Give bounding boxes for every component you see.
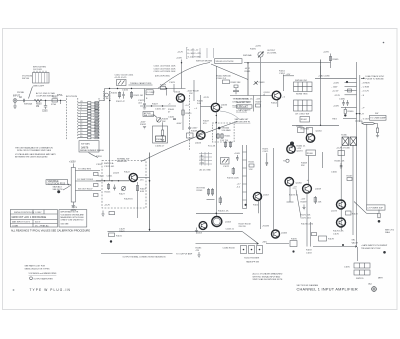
Q1064 internals: [309, 135, 313, 141]
switch contact row 20. V/cm: [78, 133, 99, 137]
Q1157 internals: [256, 194, 260, 200]
svg-text:+R1193: +R1193: [262, 226, 270, 228]
svg-text:C1029: C1029: [169, 82, 176, 84]
wire +100 drop: [181, 60, 183, 89]
wire long vertical x149.5: [149, 153, 151, 232]
wire gain column top tick: [72, 164, 74, 168]
svg-text:SERIAL NUMBER RANGE: SERIAL NUMBER RANGE: [80, 149, 105, 152]
svg-text:-12.2V: -12.2V: [203, 97, 210, 99]
trimmer arrows: [118, 81, 125, 85]
comp bottom left: [109, 212, 115, 215]
resistor R1035: [162, 122, 164, 130]
svg-text:VOLTS/CM R510: VOLTS/CM R510: [48, 183, 66, 185]
svg-text:R1080: R1080: [348, 111, 355, 113]
Q1053 internals: [275, 93, 279, 99]
contact grid upper: [294, 82, 313, 92]
wire long vertical x109.7: [109, 91, 111, 181]
svg-text:SW1195: SW1195: [356, 278, 364, 280]
switch contact row 20 V/cm: [78, 124, 99, 128]
svg-text:NORM TRIG: NORM TRIG: [296, 94, 308, 96]
svg-text:CHANNEL 1 INPUT AMPLIFIER: CHANNEL 1 INPUT AMPLIFIER: [297, 288, 358, 292]
switch position list: [199, 154, 212, 165]
capacitor C1016: [122, 92, 125, 99]
column right rail: [246, 145, 248, 209]
wire Q1123 collector to bus: [137, 177, 149, 179]
svg-text:MRH: MRH: [378, 278, 383, 280]
pot arrow: [157, 118, 161, 122]
wire rail to Q1053: [230, 95, 272, 97]
dashed feedback line: [189, 95, 191, 150]
svg-text:B +12 C -12: B +12 C -12: [188, 49, 200, 51]
svg-text:C COMP: C COMP: [147, 92, 156, 94]
svg-text:DUAL TRACE SYNC: DUAL TRACE SYNC: [366, 75, 385, 78]
pot R1127 arrow: [122, 186, 126, 190]
svg-text:R1074 4.02K: R1074 4.02K: [227, 178, 239, 180]
svg-text:R1145 1.5K: R1145 1.5K: [218, 211, 229, 213]
ground at J500: [13, 102, 17, 108]
ground C1022: [143, 108, 146, 109]
registration dot top right: [383, 42, 385, 44]
svg-text:R1122: R1122: [124, 172, 131, 174]
callout arc from Q1033: [220, 111, 239, 119]
wire from ladder up to rail: [99, 89, 105, 101]
svg-text:VOLTAGES and WAVEFORMS: VOLTAGES and WAVEFORMS: [29, 272, 57, 275]
Q1033 internals: [214, 105, 218, 111]
svg-text:R1196: R1196: [291, 239, 298, 241]
wire bus x260: [259, 63, 261, 229]
svg-text:R1082 18K: R1082 18K: [231, 82, 242, 84]
label R1172 box: [346, 211, 352, 215]
switch contact row .05 V/cm: [78, 101, 99, 105]
svg-text:47 1080: 47 1080: [343, 148, 351, 150]
connector grid rows: [354, 263, 370, 268]
svg-text:R1167: R1167: [347, 176, 354, 178]
switch wafer dashes: [104, 91, 111, 101]
svg-text:1.5K: 1.5K: [249, 169, 254, 171]
svg-text:DC + PEAK AC: DC + PEAK AC: [35, 224, 49, 227]
svg-text:+100V: +100V: [69, 162, 76, 164]
Q1123 internals: [131, 175, 135, 181]
wire vert x353: [352, 145, 354, 235]
svg-text:R1044 SW1040: R1044 SW1040: [217, 76, 232, 78]
transformer T1080 core A: [342, 137, 349, 146]
wire bus x320.5: [320, 66, 322, 125]
Q1084 internals: [287, 179, 291, 185]
wire Q1084 emitter: [289, 186, 291, 202]
wire vert x216: [215, 150, 217, 217]
wire trigger line y243.6: [196, 243, 259, 245]
svg-text:R1155: R1155: [253, 205, 260, 207]
comp box right: [319, 236, 327, 241]
svg-text:1M: 1M: [91, 113, 94, 115]
svg-text:Q1084: Q1084: [296, 183, 303, 185]
svg-text:+100V: +100V: [234, 153, 241, 155]
R1066 box: [306, 150, 316, 156]
svg-text:R1127: R1127: [119, 194, 126, 196]
svg-text:SW: SW: [375, 113, 378, 115]
R1062 box: [300, 117, 310, 123]
ground R1185: [197, 252, 200, 257]
svg-text:TRIG: TRIG: [332, 118, 337, 120]
svg-text:SWS BAL: SWS BAL: [243, 54, 253, 57]
svg-text:ALL READINGS TYPICAL VALUES S: ALL READINGS TYPICAL VALUES SEE CALIBRAT…: [11, 230, 90, 233]
svg-text:C1171 .001: C1171 .001: [301, 217, 312, 219]
node e2: [216, 122, 217, 123]
R1166 box: [338, 151, 345, 156]
svg-text:SW500 POSITION CH 1 ONLY: SW500 POSITION CH 1 ONLY: [14, 212, 42, 214]
Q1177 internals: [339, 220, 343, 226]
svg-text:C1184 R1184: C1184 R1184: [223, 248, 236, 250]
part number box 34676: [79, 141, 99, 152]
svg-text:R1095: R1095: [250, 49, 257, 51]
comp box assembly: [153, 126, 168, 143]
capacitor C1022: [143, 89, 146, 108]
svg-text:4.5-25 4.5-25: 4.5-25 4.5-25: [115, 77, 128, 79]
svg-text:R1081: R1081: [245, 71, 252, 73]
potentiometer R GAIN column: [71, 168, 75, 203]
comp x174: [173, 84, 175, 92]
svg-text:R1054: R1054: [271, 103, 278, 105]
output dc level pot: [258, 52, 263, 57]
svg-text:Q1013: Q1013: [174, 92, 181, 94]
ground R1089: [376, 133, 379, 138]
switch contact row 50. V/cm: [78, 136, 99, 140]
trimmer box cluster: [117, 80, 127, 86]
node junction: [45, 100, 46, 101]
wire Q1033 emitter down: [215, 112, 217, 150]
transistor Q1074 upper: [287, 145, 295, 153]
wire vert x200: [200, 95, 202, 130]
svg-text:R1166 10K: R1166 10K: [335, 161, 346, 163]
svg-text:SEE GAIN SET: SEE GAIN SET: [235, 118, 250, 121]
wire into Q1123: [96, 180, 129, 182]
svg-text:1M: 1M: [91, 138, 94, 140]
wire below R1066: [307, 156, 309, 185]
svg-text:MAX INPUT VOLTS: MAX INPUT VOLTS: [12, 221, 30, 224]
transistor Q1177: [337, 218, 346, 227]
comp box inner dark: [156, 136, 166, 142]
wire pot down to rail: [260, 57, 262, 62]
C COMP box: [146, 90, 153, 95]
node rail c: [131, 88, 132, 89]
svg-text:+ D 12V: + D 12V: [362, 91, 370, 93]
ground left cluster: [101, 211, 104, 217]
node n3: [118, 180, 119, 181]
svg-text:AC: AC: [19, 96, 23, 99]
svg-text:R1 2.4K: R1 2.4K: [208, 146, 216, 148]
svg-text:1M: 1M: [36, 106, 39, 108]
wire bus x320.5 top: [320, 60, 322, 67]
svg-text:+100V: +100V: [333, 83, 340, 85]
svg-text:Q1163: Q1163: [225, 222, 232, 224]
wire output line y253.5: [101, 253, 173, 255]
wire vert x356.5: [356, 62, 358, 247]
svg-text:+12V: +12V: [286, 74, 291, 76]
Q1013 internals: [179, 95, 183, 101]
svg-text:C1071: C1071: [263, 151, 270, 153]
switch label box SW465: [215, 59, 243, 64]
svg-text:TRIGGER SIGNAL DC: TRIGGER SIGNAL DC: [233, 98, 254, 101]
node rail left: [247, 62, 248, 63]
svg-text:R1066: R1066: [307, 153, 314, 155]
svg-text:Q1184: Q1184: [281, 233, 288, 235]
resistor R1144: [219, 196, 221, 205]
svg-text:X10 GAIN: X10 GAIN: [222, 129, 232, 132]
ground R1080: [344, 114, 346, 116]
node x149 a: [149, 180, 151, 182]
pot wiper arrow: [258, 52, 264, 58]
row G wire: [343, 117, 357, 119]
node s1: [151, 105, 152, 106]
wire vert x341: [340, 146, 342, 230]
svg-text:+100V R1049: +100V R1049: [187, 91, 200, 93]
switch wafer dashed line C: [98, 98, 100, 140]
svg-text:R1192: R1192: [306, 250, 313, 252]
svg-text:WITH CIRCUIT NUMBER SWITCHES: WITH CIRCUIT NUMBER SWITCHES: [17, 150, 52, 152]
resistor R1167: [347, 178, 352, 181]
svg-text:C1024 .047 R1026 100K: C1024 .047 R1026 100K: [154, 71, 177, 73]
symbol cal: [346, 81, 348, 83]
transistor Q1033: [211, 103, 219, 111]
table divider lines: [10, 210, 57, 227]
wire x166 stub: [166, 89, 168, 96]
svg-text:SEE NOTE: SEE NOTE: [53, 189, 64, 191]
wire saw down: [357, 247, 359, 261]
svg-text:PROBE: PROBE: [17, 92, 25, 94]
svg-text:DIAG: DIAG: [385, 231, 390, 234]
Q1153 internals: [201, 223, 205, 228]
svg-text:PROCEDURE R1: PROCEDURE R1: [235, 122, 252, 124]
svg-text:SIG SEE: SIG SEE: [61, 224, 70, 226]
transistor Q1123: [129, 173, 137, 181]
switch contact row .2 V/cm: [78, 107, 99, 111]
label box GAIN ADJ: [46, 180, 68, 185]
resistor R1152: [249, 164, 254, 167]
svg-text:T1080: T1080: [341, 135, 348, 137]
svg-text:DC SHIFT R1103: DC SHIFT R1103: [78, 179, 94, 181]
wire vert x248: [247, 63, 249, 96]
resistor R1082: [234, 85, 238, 88]
wire stage rail y106: [140, 105, 176, 107]
node rail a: [109, 88, 110, 89]
Q1074u internals: [289, 146, 293, 152]
svg-text:C1046: C1046: [168, 117, 175, 119]
dashed box norm invert: [102, 161, 146, 209]
svg-text:COMB: COMB: [12, 225, 19, 227]
footer diamond symbol: [30, 277, 33, 280]
switch contact row 1 V/cm: [78, 112, 99, 116]
svg-text:20.: 20.: [80, 133, 83, 135]
wire vert x283: [282, 75, 284, 92]
wire sawtooth y246.5: [313, 246, 357, 248]
wire stub down: [60, 101, 62, 105]
ground loop left: [110, 240, 112, 242]
resistor R1104: [94, 194, 99, 197]
switch contact row 2 V/cm: [78, 115, 99, 119]
ground Q1069: [302, 205, 305, 210]
svg-text:SW 500: SW 500: [22, 78, 30, 80]
ground R1175: [378, 220, 381, 223]
svg-text:- G OUT: - G OUT: [362, 118, 370, 120]
pot R1033: [157, 118, 162, 123]
wire Q1157 emitter: [257, 201, 259, 214]
T1080 hatch: [342, 137, 357, 146]
svg-text:800K: 800K: [91, 128, 96, 130]
svg-text:Q1023: Q1023: [195, 143, 202, 145]
svg-text:- C RUN: - C RUN: [362, 87, 370, 89]
svg-text:C1122 .001: C1122 .001: [104, 166, 115, 168]
resistor R1089: [376, 128, 378, 133]
wire gain out lower: [75, 190, 101, 192]
svg-text:PULSE TO SW1080: PULSE TO SW1080: [366, 79, 385, 81]
capacitor C500: [24, 99, 25, 102]
svg-text:2 DC: 2 DC: [200, 159, 205, 161]
capacitor C1166: [340, 163, 343, 169]
wire emitter down: [182, 102, 184, 131]
switch contact row 10. V/cm: [78, 130, 99, 134]
svg-text:R1178: R1178: [328, 239, 335, 241]
emblem circle: [372, 287, 377, 292]
column rungs: [243, 152, 247, 200]
emblem cross: [372, 287, 376, 291]
svg-text:-100V: -100V: [140, 122, 146, 124]
comp box SW cluster: [223, 80, 230, 84]
bracket under tunnel caps: [129, 84, 153, 86]
resistor R1102: [94, 184, 99, 187]
svg-text:C1036 4.7: C1036 4.7: [155, 146, 165, 148]
svg-text:-12.2V: -12.2V: [177, 52, 184, 54]
ground Q1153: [195, 228, 198, 233]
bracket under pair: [207, 199, 215, 201]
svg-text:C1176: C1176: [333, 233, 340, 235]
node e1: [216, 115, 217, 116]
transistor Q1163 emphasized: [212, 217, 222, 227]
pointer attn bal: [154, 115, 158, 118]
svg-text:C505: C505: [42, 111, 48, 113]
wire trig diag: [242, 231, 258, 243]
node x166: [166, 88, 167, 89]
svg-text:BAL R1031: BAL R1031: [144, 114, 155, 117]
switch contact row 50 V/cm: [78, 127, 99, 131]
svg-text:C1072: C1072: [223, 166, 230, 168]
svg-text:G -100 H GND: G -100 H GND: [188, 56, 202, 58]
termination cluster: [290, 241, 297, 247]
wire gain out mid: [75, 180, 101, 182]
resistor R1074: [232, 167, 234, 175]
wire bus x273.7: [273, 148, 275, 230]
svg-text:GRID CKT +DC 1 MID RANGE: GRID CKT +DC 1 MID RANGE: [12, 216, 47, 219]
wire +225 right drop: [330, 54, 332, 69]
transistor Q1153: [199, 222, 207, 230]
ground below gain pot: [72, 206, 76, 208]
svg-text:OUTPUT AMPLIFIER: OUTPUT AMPLIFIER: [34, 278, 54, 281]
svg-text:R1027: R1027: [152, 104, 159, 106]
wire x194 stub: [193, 80, 195, 101]
wire stub x266.8: [266, 153, 268, 162]
grid upper lines: [294, 82, 313, 92]
svg-text:TYPE W PLUG-IN: TYPE W PLUG-IN: [30, 288, 71, 292]
svg-text:+ B RUN: + B RUN: [362, 83, 371, 85]
capacitor C1082: [233, 88, 239, 94]
registration dot bottom left: [13, 289, 15, 291]
svg-text:R1016: R1016: [111, 93, 118, 95]
svg-text:C1031 .047: C1031 .047: [155, 109, 166, 111]
svg-text:SW500A: SW500A: [24, 103, 33, 106]
svg-text:SW GAIN: SW GAIN: [81, 143, 90, 146]
resistor R1125: [108, 183, 110, 190]
label R1057 comp: [256, 104, 261, 107]
svg-text:R1062: R1062: [301, 119, 308, 121]
svg-text:AC DC GND DC BAL: AC DC GND DC BAL: [36, 92, 56, 95]
svg-text:T1184 TRIGGER: T1184 TRIGGER: [244, 258, 260, 260]
svg-text:TO CHAN 2 AMP: TO CHAN 2 AMP: [370, 117, 386, 120]
svg-text:TRIGGER INPUT SW: TRIGGER INPUT SW: [361, 248, 381, 250]
svg-text:+225V: +225V: [323, 52, 330, 54]
svg-text:VALUE: VALUE: [352, 241, 359, 244]
svg-text:TO OUTPUT AMP: TO OUTPUT AMP: [176, 253, 193, 256]
pointer gain to pot: [63, 185, 71, 190]
resistor R1101: [94, 173, 99, 176]
svg-text:C1080: C1080: [339, 99, 346, 101]
node +100: [181, 62, 182, 63]
resistor R1085: [329, 57, 331, 61]
svg-text:E +100 F +225: E +100 F +225: [188, 53, 202, 55]
svg-text:C1047: C1047: [192, 128, 199, 130]
svg-text:10.: 10.: [80, 130, 83, 132]
svg-text:SWITCH SHOWN: SWITCH SHOWN: [196, 61, 213, 63]
capacitor C1047: [188, 128, 191, 129]
svg-text:C1166: C1166: [331, 172, 338, 174]
svg-text:C1023 .001 R1025 220K: C1023 .001 R1025 220K: [154, 68, 177, 70]
attenuator box AT500: [33, 73, 50, 84]
svg-text:1M: 1M: [91, 116, 94, 118]
wire +cal vert: [315, 66, 357, 78]
connector grid lines: [359, 263, 364, 275]
trimmer arrow2: [222, 159, 228, 163]
switch wafer dashed line A: [66, 96, 68, 141]
svg-text:C1083: C1083: [259, 82, 266, 84]
T1184 dots: [243, 249, 245, 251]
svg-text:C1195: C1195: [344, 267, 351, 269]
table frame right: [59, 210, 87, 227]
resistor R1080: [344, 107, 346, 109]
svg-text:+100V: +100V: [176, 58, 183, 60]
row E wire: [345, 94, 357, 96]
svg-text:R1021 1M: R1021 1M: [134, 95, 144, 97]
wire vert x359.8: [359, 75, 361, 122]
svg-text:-12.2V: -12.2V: [336, 148, 343, 150]
node s2: [162, 105, 163, 106]
wiper arrow of gain pot: [68, 184, 71, 185]
switch contact row 5 V/cm: [78, 118, 99, 122]
C COMP trimmer box2: [221, 158, 230, 165]
svg-text:SIG OUT R1107: SIG OUT R1107: [78, 188, 93, 190]
svg-text:500K: 500K: [91, 131, 96, 133]
attn bal label box: [143, 112, 154, 117]
svg-text:- 100V: - 100V: [332, 87, 339, 89]
connector J500: [13, 99, 17, 103]
trimmer C1063: [307, 128, 313, 135]
svg-text:LEVEL CENTERING: LEVEL CENTERING: [233, 101, 252, 103]
comp C1046: [173, 119, 176, 120]
node y213: [216, 213, 218, 215]
svg-text:5.6K: 5.6K: [197, 103, 202, 105]
comp at coax end: [375, 124, 378, 129]
svg-text:3A676: 3A676: [81, 147, 89, 150]
wire emitter chain: [306, 193, 308, 246]
symbol near R1175: [342, 244, 344, 246]
svg-text:R1171 22K: R1171 22K: [301, 215, 312, 217]
